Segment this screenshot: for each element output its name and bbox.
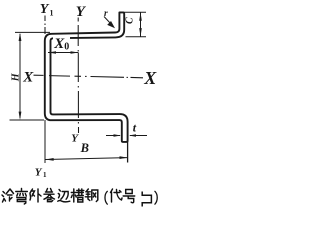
svg-text:t: t [133,120,137,134]
t dimension right arrow [130,135,147,137]
svg-text:r: r [104,9,108,19]
svg-text:Y: Y [35,166,43,178]
char 边 [58,190,70,202]
svg-text:1: 1 [43,171,47,179]
channel section outline [45,12,128,142]
X axis (dash-dot centerline) [34,75,144,78]
paren ) [155,191,157,204]
char 槽 [71,189,84,202]
char 冷 [2,189,14,202]
H dimension extension line bottom [10,119,45,121]
C dimension extension line bottom [126,36,147,38]
svg-text:0: 0 [64,41,69,52]
char 代 [111,189,123,202]
char 钢 [85,189,98,202]
B dimension line with arrows [46,158,128,160]
svg-text:Y: Y [71,132,79,144]
svg-text:Y: Y [40,2,50,17]
X0 text background [53,37,70,49]
paren ( [105,191,107,204]
svg-text:B: B [80,141,89,155]
r leader line with arrowhead [104,17,112,25]
svg-text:H: H [10,72,21,82]
caption: hand-drawn CJK strokes [2,189,157,207]
H dimension extension line top [15,31,50,33]
svg-text:1: 1 [50,9,54,18]
channel code glyph [142,192,151,207]
t dimension left arrow [106,135,120,137]
C dimension extension line top [119,11,146,13]
char 外 [30,189,41,202]
svg-text:Y: Y [76,4,87,20]
svg-text:X: X [22,69,34,85]
Y1 axis top segment [44,16,46,35]
B right extension line [127,141,129,163]
X0 dimension line with arrows [48,52,79,54]
C dimension line with arrows [140,12,142,36]
H dimension line with arrows [19,34,21,118]
char 卷 [44,189,55,202]
char 号 [123,190,135,203]
Y1 axis / B left extension line [44,120,46,163]
svg-text:X: X [143,68,157,88]
svg-text:C: C [125,17,136,24]
Y axis (dash-dot centerline) [77,18,79,134]
char 弯 [16,189,27,205]
